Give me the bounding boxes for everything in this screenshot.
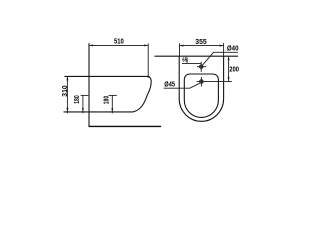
svg-text:510: 510 <box>114 39 124 46</box>
svg-text:310: 310 <box>62 85 69 96</box>
svg-text:Ø40: Ø40 <box>227 45 239 52</box>
svg-text:65: 65 <box>182 58 187 64</box>
svg-text:355: 355 <box>195 39 206 46</box>
svg-text:180: 180 <box>74 95 81 104</box>
svg-text:Ø45: Ø45 <box>164 82 175 89</box>
svg-text:200: 200 <box>229 66 239 73</box>
svg-text:180: 180 <box>103 96 110 105</box>
